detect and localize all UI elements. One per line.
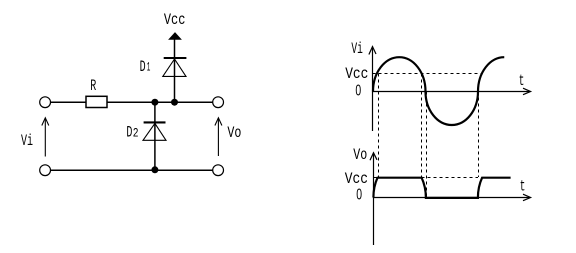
svg-text:Vi: Vi <box>21 132 33 150</box>
svg-text:t: t <box>520 178 526 196</box>
svg-text:0: 0 <box>355 83 361 100</box>
svg-text:D: D <box>126 124 132 142</box>
svg-text:Vcc: Vcc <box>164 11 186 29</box>
svg-text:t: t <box>519 72 525 90</box>
svg-text:Vcc: Vcc <box>345 170 368 188</box>
svg-text:1: 1 <box>147 61 151 75</box>
svg-text:Vo: Vo <box>353 146 367 164</box>
svg-text:Vo: Vo <box>227 124 241 142</box>
svg-text:R: R <box>90 77 96 95</box>
svg-text:Vi: Vi <box>351 40 363 58</box>
svg-text:2: 2 <box>133 127 139 141</box>
svg-text:Vcc: Vcc <box>345 65 368 83</box>
svg-text:D: D <box>140 58 146 76</box>
svg-text:0: 0 <box>356 187 362 204</box>
